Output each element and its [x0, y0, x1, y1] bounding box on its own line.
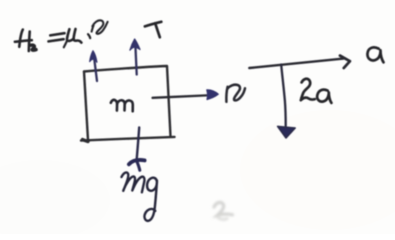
normal arrow N (right, from box right side): [153, 90, 219, 100]
label mg (cursive): [122, 172, 158, 220]
label N (normal): [226, 85, 245, 102]
label m inside box: [111, 100, 133, 111]
box m (block): [81, 66, 175, 142]
acceleration arrow a (right side, horizontal): [249, 56, 350, 68]
label T: [145, 22, 161, 37]
label Hs = u,N (friction formula): [15, 20, 108, 51]
label 2a: [301, 79, 332, 103]
label a (acceleration): [367, 47, 383, 62]
pencil smudge 2: [214, 202, 233, 219]
friction arrow (up, from box top-left): [90, 51, 97, 81]
weight arrow mg (down, from box bottom): [129, 128, 145, 171]
acceleration arrow 2a (down, from horizontal arrow): [278, 65, 296, 139]
tension arrow T (up, from box top): [130, 39, 140, 75]
